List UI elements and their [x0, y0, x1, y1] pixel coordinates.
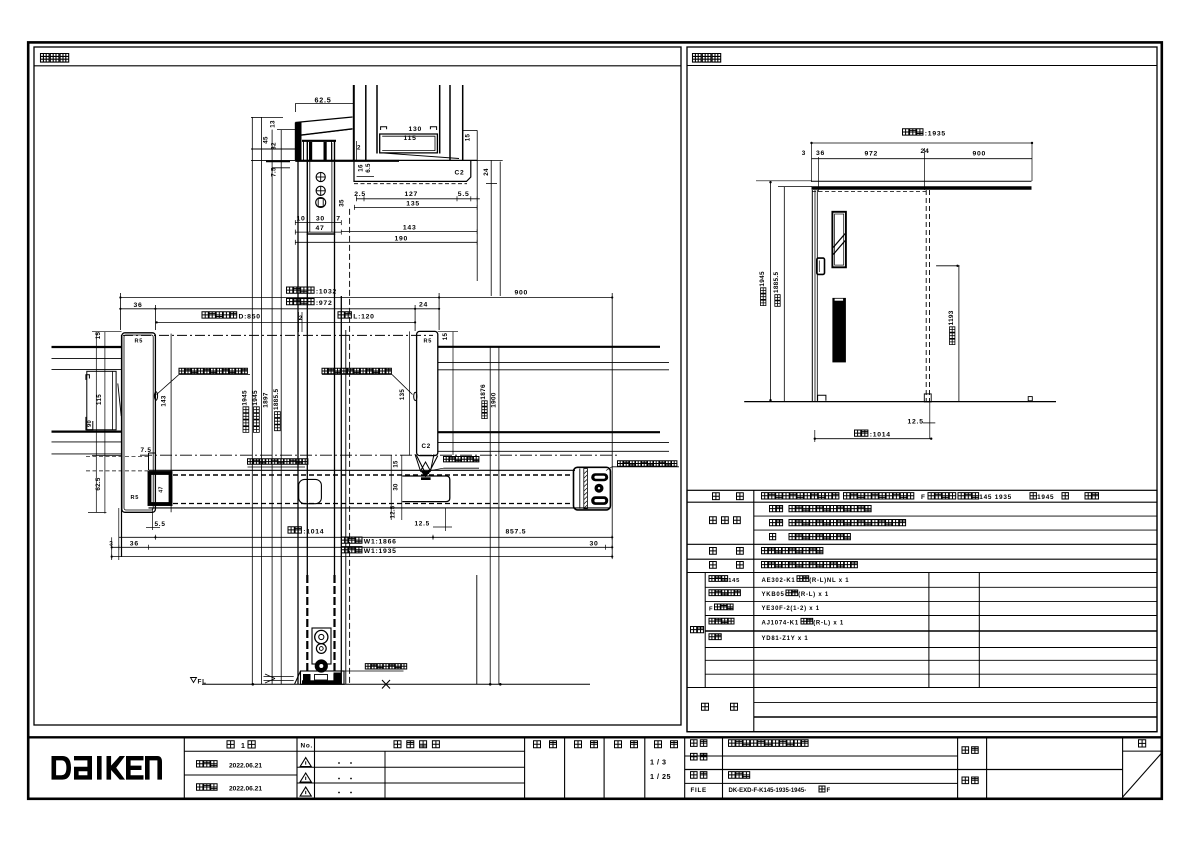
plan dim line3 opening D:850 and L:120	[157, 321, 415, 323]
ceiling trim wedge lower slant	[295, 129, 352, 136]
svg-text:24: 24	[419, 301, 428, 308]
svg-text:C2: C2	[455, 170, 465, 177]
plan dim labels wakugai W2:1032	[287, 287, 315, 293]
spec table column lines	[753, 490, 755, 731]
svg-text:2022.06.21: 2022.06.21	[229, 786, 262, 793]
FL marker triangle and text	[191, 678, 197, 683]
svg-text:16: 16	[357, 164, 364, 172]
svg-text:62.5: 62.5	[95, 477, 102, 491]
zumei label and value sanmenzu	[691, 772, 707, 779]
rail centerline dash-dot	[140, 454, 620, 456]
dim 143 vertical	[170, 334, 172, 513]
dim row 2.5 127 5.5	[356, 198, 480, 200]
end stopper (plan)	[574, 467, 611, 510]
top detail wall stud line d	[439, 85, 441, 154]
top rail C-channel body	[380, 134, 438, 153]
door travel dash-dot line (plan)	[123, 334, 433, 336]
top detail wall stud line f	[462, 85, 464, 160]
svg-text:190: 190	[395, 236, 409, 243]
cap ellipse on right jamb	[414, 392, 417, 400]
floor line dots and X mark	[252, 683, 255, 686]
svg-text:135: 135	[406, 201, 420, 208]
spec table outer	[687, 490, 1157, 731]
svg-text:1945: 1945	[759, 271, 766, 287]
svg-text:145: 145	[728, 578, 740, 584]
wedge inner profile lines	[302, 129, 353, 135]
right jamb (plan)	[417, 331, 438, 455]
bracket diagonal brace	[118, 383, 121, 416]
board hidden dashed bottom	[354, 183, 467, 185]
kaitei-rireki header	[394, 741, 439, 748]
top rail C-channel hook right	[430, 127, 436, 130]
svg-text:62.5: 62.5	[315, 95, 332, 104]
svg-text:5.5: 5.5	[155, 521, 166, 528]
svg-text:1945: 1945	[242, 390, 249, 406]
vis cap leader left	[157, 375, 180, 395]
svg-text:1897: 1897	[263, 392, 270, 408]
rev history divider	[384, 751, 386, 798]
svg-text:R5: R5	[135, 339, 144, 345]
jamb-to-rail step	[148, 453, 150, 470]
svg-text:135: 135	[399, 389, 406, 400]
bikou (remarks) label	[702, 703, 709, 710]
svg-text:1 / 25: 1 / 25	[650, 772, 671, 781]
svg-text:FL: FL	[198, 679, 207, 686]
hanging-door anti-tilt fitting label	[248, 459, 308, 465]
svg-text::1935: :1935	[925, 130, 946, 137]
svg-text:W1:1935: W1:1935	[364, 548, 397, 555]
finish row3 frame olefin sheet	[770, 534, 776, 540]
finish row2 styrene resin mist	[770, 520, 783, 526]
svg-text:2022.06.21: 2022.06.21	[229, 762, 262, 769]
shounin header	[534, 741, 557, 748]
plan bottom dim line3	[112, 556, 613, 558]
long vertical dim line kutai-height 1945	[251, 117, 253, 684]
top detail wall stud line e	[449, 85, 451, 160]
spec row: model (katashiki)	[713, 493, 720, 500]
dim 24 extension line	[477, 159, 503, 161]
top detail wall stud line c	[376, 85, 378, 154]
svg-text:7.5: 7.5	[141, 447, 152, 454]
svg-text:15: 15	[393, 460, 399, 468]
svg-text:30: 30	[393, 483, 399, 491]
right wall horizontal lines upper	[438, 346, 660, 348]
svg-text:900: 900	[515, 290, 529, 297]
small arrow detail at floor left	[264, 674, 294, 683]
door tail bracket (plan)	[402, 476, 450, 502]
svg-text::1014: :1014	[303, 528, 324, 535]
svg-text:1945: 1945	[252, 390, 259, 406]
left jamb (plan)	[122, 333, 156, 513]
elev header rail	[812, 180, 1032, 182]
end stopper slot bottom (black)	[591, 496, 608, 505]
hanger screw column	[307, 141, 334, 234]
svg-text:127: 127	[405, 191, 419, 198]
svg-text:90: 90	[87, 420, 93, 427]
svg-text:AJ1074-K1: AJ1074-K1	[762, 621, 799, 627]
end stopper label (toritsuke end stopper)	[618, 461, 677, 466]
svg-text:12.5: 12.5	[908, 419, 924, 426]
svg-text:5.5: 5.5	[458, 191, 470, 198]
byouin label	[962, 777, 978, 784]
svg-text:C2: C2	[422, 443, 431, 450]
upper frame board top line	[295, 159, 477, 161]
svg-text:No.: No.	[301, 743, 314, 750]
door bottom slot in rail (plan)	[299, 479, 322, 503]
elev black accent bar	[832, 298, 846, 363]
sakusei header	[615, 741, 638, 748]
wall stub lines left of wedge	[251, 148, 295, 150]
svg-text:D:850: D:850	[239, 313, 261, 320]
svg-text:YE30F-2(1-2) x 1: YE30F-2(1-2) x 1	[762, 606, 820, 612]
elev floor line	[744, 401, 1056, 403]
svg-text:1193: 1193	[948, 310, 955, 325]
top detail wall stud line b	[365, 85, 367, 160]
svg-text:1885.5: 1885.5	[773, 272, 780, 293]
rev history rows	[315, 766, 525, 768]
left view box (section view)	[34, 47, 681, 725]
svg-text:143: 143	[161, 395, 168, 406]
DAIKEN logo	[52, 756, 163, 780]
svg-text:FILE: FILE	[691, 787, 707, 794]
rail hidden dashed under	[812, 191, 926, 193]
elev right dim hikite-daka 1193	[958, 266, 960, 402]
meishou label and value	[691, 740, 707, 747]
right wall horizontal lines lower	[438, 431, 660, 433]
cap ellipse on left jamb	[154, 392, 157, 400]
dim row 135	[354, 206, 477, 208]
center safety guide V symbol	[415, 454, 434, 471]
svg-text:30: 30	[316, 216, 325, 223]
hinban row labels and part numbers	[709, 576, 728, 582]
hanger bolt circle 1	[316, 172, 325, 181]
page (hyou) cell	[1123, 750, 1162, 752]
elev window (light slot)	[832, 212, 846, 267]
hidden dashed rail lines through left wall	[86, 456, 148, 458]
svg-text:24: 24	[483, 168, 490, 176]
ceiling trim wedge black left bar	[295, 122, 302, 161]
hanger bolt circle 3 with nut	[316, 198, 326, 208]
roller circle 3 (floor guide, black)	[315, 659, 328, 672]
upper frame board body	[354, 160, 471, 181]
svg-text:(R-L) x 1: (R-L) x 1	[798, 592, 829, 598]
rail mount diagonal	[382, 153, 459, 159]
svg-text:(R-L) x 1: (R-L) x 1	[813, 621, 844, 627]
svg-text:972: 972	[865, 150, 879, 157]
left box title separator	[34, 65, 681, 67]
svg-text:24: 24	[921, 148, 930, 155]
hinban label	[691, 753, 707, 760]
plan bottom dim line1 tobira 1014 and 857.5	[119, 536, 612, 538]
door bottom right small block	[924, 394, 931, 402]
top detail wall stud line a	[353, 85, 355, 161]
right box title: shou-men-zu (front view label)	[693, 54, 721, 63]
dim row 47	[295, 231, 341, 233]
svg-text:45: 45	[263, 136, 270, 144]
floor line FL	[202, 683, 590, 685]
plan top dim line W2 1032 and 900	[120, 297, 612, 299]
svg-text:7.5: 7.5	[271, 167, 278, 177]
dim row 10 30 7	[295, 222, 341, 224]
svg-text:7: 7	[336, 216, 341, 223]
vis cap leader right	[392, 375, 413, 395]
right view box (front view)	[687, 47, 1157, 732]
svg-text:R5: R5	[424, 339, 433, 345]
svg-text:36: 36	[134, 302, 143, 309]
roller circle 1	[315, 630, 328, 643]
left box title: dan-men-zu (section view label)	[41, 54, 69, 63]
long vertical dim line 1897	[271, 130, 273, 685]
kaitei-bi row	[197, 784, 218, 790]
svg-text:12.5: 12.5	[415, 521, 430, 528]
rev history date dots	[338, 762, 340, 764]
rail bottom line	[149, 507, 611, 509]
spec row: handle (totte)	[710, 548, 717, 555]
title block verticals	[183, 739, 185, 799]
svg-text:47: 47	[316, 225, 325, 232]
sakusha label	[962, 747, 978, 754]
svg-text:1876: 1876	[480, 384, 487, 400]
full-height wall/door section verticals	[297, 161, 299, 684]
door centerline dashed vertical	[349, 209, 351, 684]
svg-text:DK-EXD-F-K145-1935-1945-: DK-EXD-F-K145-1935-1945-	[729, 788, 807, 794]
hanger bolt circle 2	[316, 186, 325, 195]
spec row: mechanism	[710, 562, 717, 569]
bottom rail top solid line (plan)	[149, 469, 576, 471]
left wall horizontal lines lower	[52, 431, 122, 433]
svg-text:F: F	[921, 494, 926, 501]
elev door left edge	[811, 190, 813, 402]
safe-rail label	[444, 457, 479, 462]
elev dim extension verticals	[811, 143, 813, 182]
ceiling trim wedge upper slant	[295, 117, 352, 123]
svg-text:L:120: L:120	[353, 313, 375, 320]
svg-text:6.5: 6.5	[365, 163, 372, 173]
dim row 190	[295, 241, 477, 243]
svg-text:15: 15	[465, 134, 472, 142]
elev dim tobira-haba 1014	[855, 430, 868, 436]
dim end dots plan rows	[119, 296, 121, 298]
dim 24 vertical	[490, 160, 492, 296]
svg-text:YKB05-: YKB05-	[762, 592, 788, 598]
svg-text:R5: R5	[131, 495, 140, 501]
end stopper slot top (black)	[591, 473, 608, 481]
shukushaku header	[655, 741, 678, 748]
svg-text:1: 1	[241, 743, 246, 750]
left tick stubs	[251, 116, 262, 118]
svg-text:YD81-Z1Y x 1: YD81-Z1Y x 1	[762, 636, 809, 642]
kakunin header	[575, 741, 598, 748]
end stopper hatch column	[584, 469, 588, 509]
svg-text:1900: 1900	[490, 392, 497, 408]
rev header row line	[184, 750, 297, 752]
flat-rail label	[365, 664, 406, 669]
svg-text:13: 13	[270, 120, 277, 128]
elev handle (hikite)	[817, 258, 825, 274]
svg-text:1 / 3: 1 / 3	[650, 758, 667, 767]
page diagonal slash	[1123, 753, 1162, 797]
svg-text:2.5: 2.5	[354, 191, 366, 198]
left receiving bracket	[87, 371, 116, 430]
elev door right edge dashed (pocket line)	[925, 190, 927, 402]
svg-text:3: 3	[802, 150, 806, 157]
svg-text:35: 35	[338, 199, 345, 207]
plan bottom dim line2	[112, 546, 613, 548]
svg-text:30: 30	[590, 541, 599, 548]
right 15-dim extension vertical	[476, 130, 478, 281]
warning triangle rev marks	[300, 758, 311, 767]
dim verticals 1876 1900	[489, 347, 491, 685]
svg-text:F: F	[709, 606, 713, 612]
svg-text:1945: 1945	[1037, 494, 1054, 501]
title block top thick line	[29, 736, 1163, 738]
svg-text:1885.5: 1885.5	[273, 389, 280, 410]
svg-text::972: :972	[316, 300, 333, 307]
svg-text:2: 2	[299, 315, 303, 322]
top rail C-channel hook left	[381, 127, 387, 130]
right box title separator	[687, 65, 1157, 67]
left wall horizontal lines upper	[52, 346, 122, 348]
svg-text:15: 15	[442, 333, 449, 341]
vis cap label right	[322, 368, 391, 373]
elev left dim wakugai-daka 1945	[770, 181, 772, 402]
long vertical dim line door-height 1885.5	[280, 130, 282, 685]
svg-text:900: 900	[973, 150, 987, 157]
svg-text:36: 36	[816, 150, 825, 157]
svg-text:(R-L)NL x 1: (R-L)NL x 1	[809, 578, 849, 584]
window diagonal glints	[833, 234, 845, 248]
left rail bracket with black edge	[150, 473, 171, 504]
rev header dai-1-han	[227, 741, 234, 748]
right jamb bottom taper to point	[417, 456, 438, 474]
svg-text:115: 115	[404, 135, 417, 142]
svg-text:F: F	[827, 788, 831, 794]
dim 62.5 line	[296, 102, 355, 104]
bottom dim vertical stubs	[111, 537, 113, 560]
plan dim vertical stubs	[119, 293, 121, 330]
name rows right section	[685, 755, 958, 757]
left wall face vertical	[121, 335, 123, 557]
svg-text:145 1935: 145 1935	[979, 494, 1012, 501]
vis cap label left (gaishuheki screw cap)	[179, 368, 247, 373]
svg-text:857.5: 857.5	[506, 528, 527, 535]
roller circle 2	[316, 644, 326, 654]
guide base black U	[421, 477, 431, 480]
spec table row lines	[687, 501, 1157, 503]
elev left dim tobira-daka 1885.5	[783, 187, 785, 402]
door bottom guide block	[818, 395, 826, 401]
end stopper center circle (black)	[595, 484, 604, 493]
dim row 143	[341, 231, 477, 233]
rail inner dashed lines	[173, 474, 573, 476]
svg-text:115: 115	[96, 394, 103, 405]
svg-text:130: 130	[409, 126, 423, 133]
bottom roller assembly housing	[312, 628, 331, 664]
svg-text::1014: :1014	[870, 432, 891, 439]
long vertical dim line waku-height 1945	[260, 117, 262, 684]
dim 135 vertical right	[409, 331, 411, 455]
seitei-bi row	[197, 761, 218, 767]
lower right section verticals	[476, 575, 478, 684]
spec row: finish (shiage) label	[710, 517, 717, 524]
svg-text:47: 47	[159, 486, 165, 492]
hinban vertical label	[691, 627, 704, 633]
flat rail floor profile	[301, 671, 345, 684]
svg-text:W1:1866: W1:1866	[364, 539, 397, 546]
finish row1 panel olefin sheet	[770, 506, 783, 512]
elev dim wakugai-haba:1935	[903, 129, 924, 135]
right end small mark	[1028, 397, 1032, 401]
svg-text:2: 2	[357, 145, 361, 152]
plan dim line2 36 972 24	[120, 308, 439, 310]
svg-text:36: 36	[130, 540, 139, 547]
svg-text:143: 143	[403, 225, 417, 232]
svg-text:AE302-K1: AE302-K1	[762, 578, 796, 584]
